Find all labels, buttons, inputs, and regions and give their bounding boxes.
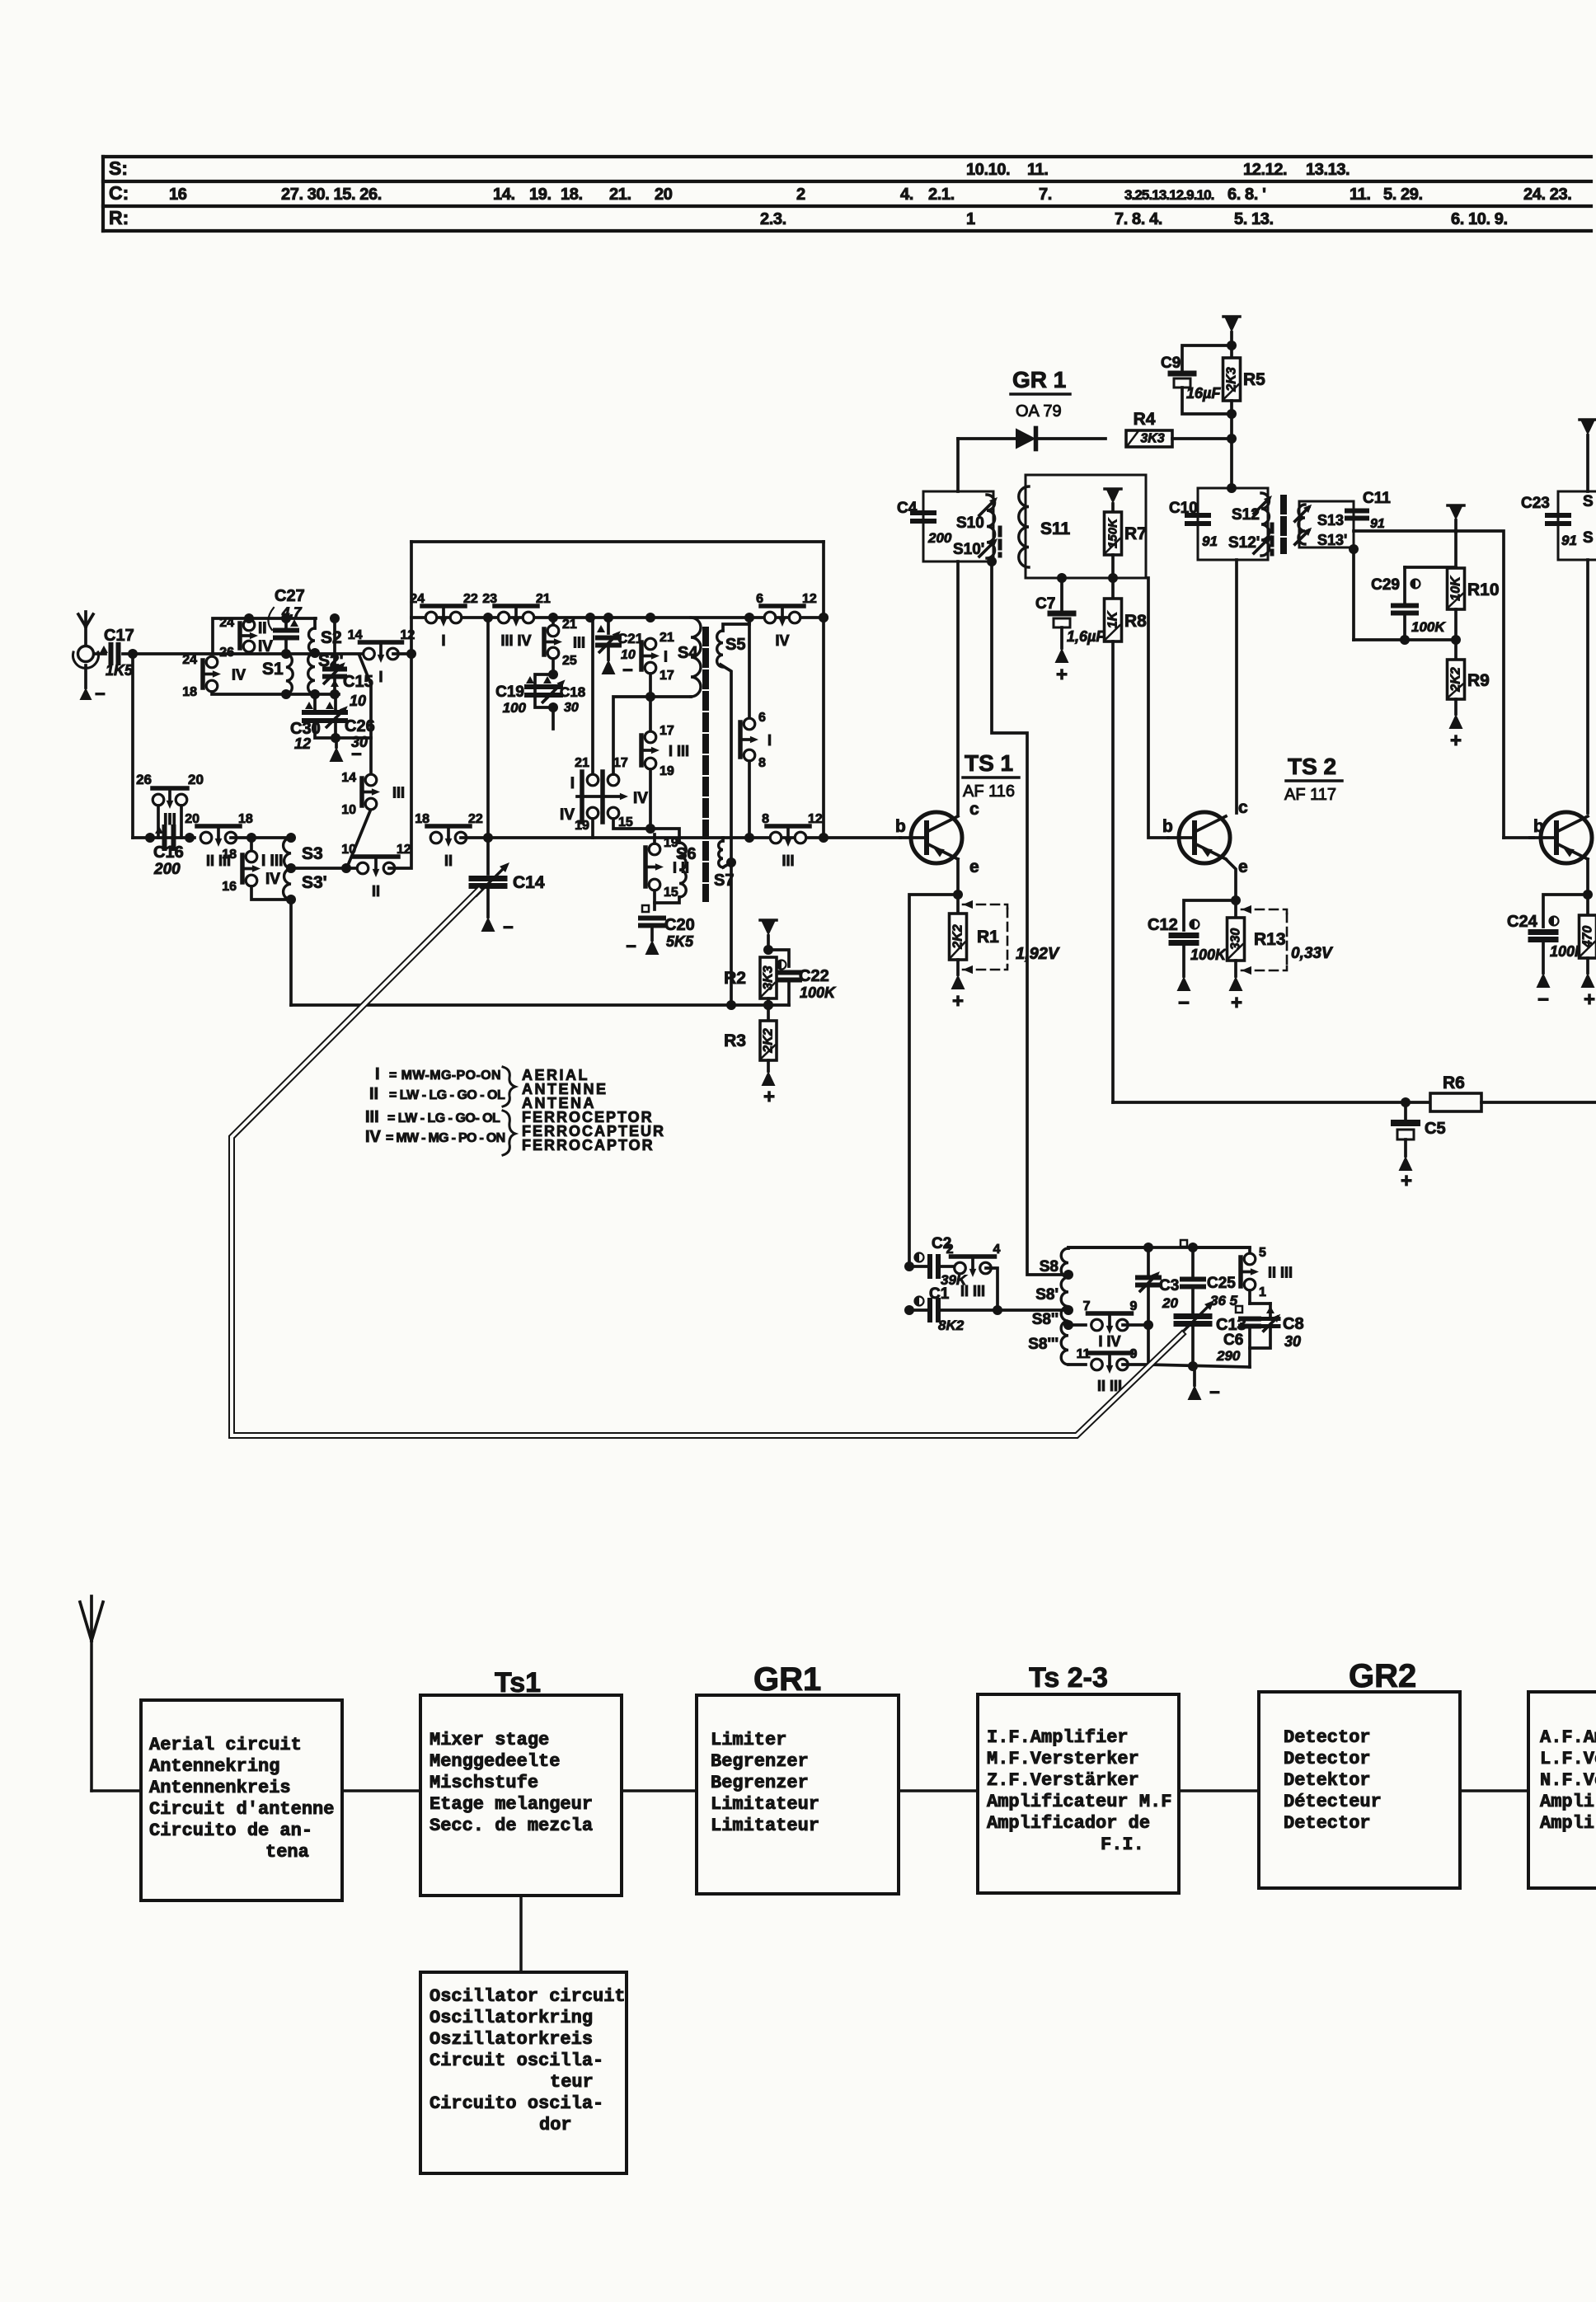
ground minus below C12 [1177, 976, 1191, 1014]
svg-text:II: II [372, 883, 380, 900]
capacitor C27 [268, 587, 304, 653]
svg-text:9: 9 [1130, 1299, 1138, 1313]
svg-text:R13: R13 [1254, 930, 1286, 949]
svg-text:tena: tena [265, 1842, 309, 1863]
svg-text:−: − [1178, 992, 1190, 1014]
svg-text:24: 24 [182, 653, 197, 667]
svg-text:20: 20 [1162, 1295, 1178, 1311]
capacitor C2 [904, 1235, 968, 1288]
resistor R13 [1228, 900, 1286, 976]
label TS1 [963, 750, 1019, 801]
wire 16 to S3' bottom [251, 886, 290, 900]
switch 24-I-22 bus [422, 604, 465, 608]
svg-text:200: 200 [927, 530, 952, 546]
svg-text:12.12.: 12.12. [1243, 161, 1287, 179]
svg-text:7: 7 [1083, 1299, 1091, 1313]
svg-text:16: 16 [222, 880, 237, 894]
measure 1,92V bracket [963, 900, 1060, 974]
svg-text:S8': S8' [1035, 1286, 1059, 1304]
minus supply above R10 [1448, 505, 1464, 532]
svg-text:III: III [365, 1108, 379, 1126]
svg-text:16: 16 [169, 186, 187, 204]
svg-text:S4: S4 [678, 644, 698, 662]
svg-text:91: 91 [1370, 517, 1385, 531]
svg-text:C1: C1 [929, 1285, 950, 1303]
switch 17-IIII-19 [641, 724, 689, 778]
svg-text:C22: C22 [799, 967, 829, 985]
wire cross 19 down [591, 819, 594, 838]
wire aerial to mixer [342, 1789, 420, 1792]
svg-text:2.1.: 2.1. [928, 186, 955, 204]
wire 4 down to C1 row [986, 1268, 997, 1310]
wire C1 to S8 tap [997, 1308, 1068, 1312]
svg-text:330: 330 [1229, 928, 1243, 951]
svg-text:+: + [1401, 1170, 1412, 1192]
svg-text:19: 19 [575, 819, 589, 833]
svg-text:C12: C12 [1148, 916, 1178, 934]
svg-text:−: − [1537, 989, 1549, 1011]
svg-text:30: 30 [1284, 1333, 1301, 1350]
svg-text:21: 21 [562, 618, 577, 632]
coil S2 S2' [308, 618, 344, 699]
svg-text:+: + [1450, 730, 1462, 752]
svg-text:Circuito de an-: Circuito de an- [149, 1820, 312, 1841]
svg-text:3K3: 3K3 [1140, 432, 1164, 446]
svg-text:Detektor: Detektor [1284, 1770, 1371, 1791]
wire TS1 collector [956, 561, 960, 815]
block IF amplifier [978, 1694, 1179, 1893]
wire 8 down to bus [748, 761, 751, 838]
svg-text:I: I [767, 732, 772, 749]
wire S8 top bus [1068, 1247, 1148, 1248]
coil S10 S10' [987, 495, 995, 558]
svg-text:200: 200 [153, 861, 181, 878]
svg-text:R10: R10 [1467, 580, 1500, 599]
svg-text:+: + [1584, 989, 1595, 1011]
svg-text:1: 1 [966, 210, 975, 228]
svg-text:21: 21 [575, 756, 589, 770]
tank box C4 S10 [897, 491, 1000, 561]
svg-text:III: III [392, 785, 405, 801]
svg-text:I: I [441, 632, 445, 649]
svg-text:C29: C29 [1371, 576, 1400, 594]
svg-text:Ampli: Ampli [1540, 1813, 1594, 1834]
node bus [819, 613, 829, 622]
svg-text:4.7: 4.7 [281, 604, 303, 620]
svg-text:C16: C16 [153, 843, 184, 862]
capacitor C25 [1181, 1240, 1238, 1313]
wire 12 up to left rail [389, 542, 411, 868]
svg-text:100: 100 [503, 700, 527, 716]
coupling dashed S12-S13 [1280, 498, 1287, 551]
svg-text:C10: C10 [1169, 500, 1198, 517]
svg-text:+: + [1231, 992, 1242, 1014]
svg-text:GR2: GR2 [1349, 1658, 1416, 1694]
wire TS3 base stub [1504, 836, 1533, 839]
svg-text:Ampli: Ampli [1540, 1792, 1594, 1812]
wire oscillator bottom bus [291, 1003, 789, 1007]
svg-text:S: S [1583, 529, 1594, 547]
capacitor C20 [641, 905, 695, 950]
trimmer C19 capacitor C18 block [495, 659, 585, 729]
svg-text:III: III [782, 853, 794, 869]
svg-text:F.I.: F.I. [1101, 1835, 1144, 1855]
svg-text:2K2: 2K2 [951, 924, 965, 949]
svg-text:−: − [1209, 1382, 1220, 1402]
svg-text:Mischstufe: Mischstufe [430, 1773, 538, 1793]
wire C14 column [486, 618, 490, 874]
wire 6-I-8 column from rail [748, 623, 751, 718]
svg-text:13.13.: 13.13. [1306, 161, 1350, 179]
svg-text:I.F.Amplifier: I.F.Amplifier [987, 1727, 1129, 1748]
capacitor C7 [1035, 573, 1105, 648]
svg-text:21: 21 [660, 631, 674, 645]
resistor 470 [1580, 895, 1596, 973]
svg-text:6: 6 [758, 711, 766, 725]
svg-text:8K2: 8K2 [938, 1318, 965, 1333]
svg-text:S5: S5 [725, 636, 745, 654]
svg-text:11: 11 [1077, 1347, 1091, 1361]
node bus [603, 613, 613, 622]
svg-text:5. 29.: 5. 29. [1383, 186, 1423, 204]
svg-text:1K5: 1K5 [106, 662, 134, 679]
svg-text:20: 20 [188, 772, 204, 787]
svg-text:C3: C3 [1159, 1277, 1179, 1294]
svg-text:−: − [95, 684, 106, 704]
svg-text:b: b [1533, 817, 1544, 836]
coupling dashed line S4-S5 [702, 630, 709, 899]
svg-text:C27: C27 [275, 587, 305, 605]
svg-text:100K: 100K [800, 984, 837, 1001]
svg-text:9: 9 [1130, 1347, 1138, 1361]
svg-text:IV: IV [633, 790, 648, 807]
wire 12 to rail [393, 652, 411, 655]
svg-text:S8: S8 [1040, 1258, 1059, 1275]
svg-text:S13': S13' [1317, 532, 1347, 548]
wire small box around II-IV switch [213, 618, 316, 653]
svg-text:21: 21 [536, 592, 551, 606]
svg-text:Secc. de mezcla: Secc. de mezcla [430, 1816, 593, 1836]
svg-text:23: 23 [482, 592, 497, 606]
svg-text:Antennekring: Antennekring [149, 1756, 279, 1777]
wire S13' down [1352, 547, 1355, 640]
svg-text:26: 26 [136, 772, 152, 787]
svg-text:C9: C9 [1161, 355, 1181, 372]
wire AGC bus to R6 [1113, 1101, 1439, 1104]
switch 2-IIIII-4 [946, 1243, 1001, 1299]
svg-text:3K3: 3K3 [762, 965, 776, 989]
wire cross 17 up [613, 697, 650, 774]
svg-text:IV: IV [265, 871, 280, 888]
svg-text:= LW - LG - GO - OL: = LW - LG - GO - OL [389, 1088, 505, 1102]
wire TS2 base [1148, 578, 1168, 838]
svg-text:I III: I III [261, 853, 283, 870]
svg-text:1: 1 [1259, 1285, 1266, 1299]
block AF amplifier partial [1528, 1692, 1596, 1888]
label TS2 [1284, 754, 1342, 804]
capacitor C24 [1507, 895, 1588, 973]
svg-text:S:: S: [109, 157, 128, 179]
block detector [1259, 1692, 1460, 1888]
wire to S3 bus [231, 836, 291, 839]
svg-text:Oscillatorkring: Oscillatorkring [430, 2008, 593, 2028]
wire to S6 [649, 769, 652, 829]
resistor R5 [1223, 345, 1266, 439]
svg-text:14: 14 [348, 628, 363, 642]
svg-text:10.10.: 10.10. [966, 161, 1010, 179]
svg-text:Oszillatorkreis: Oszillatorkreis [430, 2029, 593, 2050]
block aerial circuit [141, 1700, 342, 1900]
plus supply below R3 [762, 1071, 776, 1108]
svg-text:Oscillator circuit: Oscillator circuit [430, 1986, 626, 2007]
svg-text:S3: S3 [302, 844, 323, 863]
svg-text:19: 19 [664, 836, 678, 850]
wire TS3 emitter [1586, 859, 1589, 895]
node antenna junction [128, 649, 138, 659]
svg-text:20: 20 [185, 812, 199, 826]
resistor R10 [1448, 568, 1500, 660]
resistor R4 [1126, 410, 1237, 447]
minus supply top [1223, 317, 1240, 345]
ground minus below C21 [602, 660, 633, 680]
svg-text:Begrenzer: Begrenzer [711, 1773, 809, 1793]
svg-text:R7: R7 [1124, 524, 1147, 543]
switch 6-I-8 [740, 711, 772, 770]
svg-text:S13: S13 [1317, 512, 1344, 529]
svg-text:6. 8. ': 6. 8. ' [1228, 186, 1265, 204]
capacitor C9 [1161, 341, 1237, 414]
wire bottom bus S8 tank [1148, 1365, 1250, 1367]
switch 18-II-22 at C14 [427, 824, 470, 829]
svg-text:IV: IV [775, 632, 789, 649]
plus supply below C5 [1399, 1156, 1413, 1192]
svg-text:Aerial circuit: Aerial circuit [149, 1735, 302, 1755]
wire bus C16row to TS1 [461, 836, 824, 839]
switch 8-III-12 bottom [767, 824, 810, 829]
switch 23-IIIIV-21 bus [495, 604, 537, 608]
parts location table [103, 157, 1591, 231]
plus supply below R1 [951, 975, 965, 1012]
svg-text:C14: C14 [513, 873, 545, 892]
svg-text:II: II [369, 1085, 378, 1103]
svg-text:2K2: 2K2 [1449, 667, 1463, 692]
capacitor C17 [94, 627, 134, 679]
svg-text:3.25.13.12.9.10.: 3.25.13.12.9.10. [1124, 187, 1214, 203]
legend band table [365, 1065, 665, 1155]
minus supply above R2 [760, 920, 777, 936]
svg-text:TS 1: TS 1 [965, 750, 1013, 776]
node TS1 base rail [819, 613, 829, 622]
svg-text:II III: II III [960, 1283, 985, 1299]
svg-text:Détecteur: Détecteur [1284, 1792, 1382, 1812]
wire S3 tap to switch 10 [291, 867, 359, 870]
svg-text:AF 116: AF 116 [963, 782, 1015, 801]
svg-text:C26: C26 [345, 717, 375, 735]
svg-text:II: II [258, 620, 267, 637]
svg-text:R4: R4 [1134, 410, 1156, 429]
svg-text:C5: C5 [1425, 1120, 1446, 1138]
svg-text:4.: 4. [900, 186, 913, 204]
aerial ground minus [80, 684, 106, 704]
coil S6 [676, 843, 696, 897]
svg-text:I: I [375, 1065, 380, 1083]
svg-text:R2: R2 [724, 969, 746, 988]
wire diode to C4 box [956, 439, 960, 491]
svg-text:4: 4 [993, 1243, 1001, 1257]
svg-text:1,92V: 1,92V [1016, 945, 1060, 963]
ground minus below C26 [330, 738, 362, 764]
IF box S13 [1295, 501, 1354, 548]
svg-text:= MW-MG-PO-ON: = MW-MG-PO-ON [389, 1069, 501, 1083]
wire C16 row [133, 836, 195, 839]
wire TS1 emitter [956, 859, 960, 895]
svg-text:GR1: GR1 [753, 1661, 821, 1698]
node bus [744, 613, 754, 622]
svg-text:Circuit d'antenne: Circuit d'antenne [149, 1799, 334, 1820]
svg-text:+: + [763, 1086, 775, 1108]
trimmer C8 [1250, 1304, 1304, 1350]
svg-text:A.F.Am: A.F.Am [1540, 1727, 1596, 1748]
svg-text:12: 12 [294, 735, 311, 752]
svg-text:100K: 100K [1411, 619, 1446, 635]
svg-text:b: b [895, 817, 906, 836]
capacitor C4 [913, 510, 934, 515]
node bus [585, 613, 595, 622]
switch 14-I-12 [360, 640, 402, 645]
svg-text:11.: 11. [1350, 186, 1371, 204]
transistor TS3 [1530, 812, 1592, 863]
svg-text:Circuito oscila-: Circuito oscila- [430, 2093, 603, 2114]
svg-text:−: − [503, 917, 514, 937]
svg-text:18: 18 [182, 685, 197, 699]
switch 26-III-20 above C16 [136, 772, 204, 838]
ground minus below C20 [626, 936, 659, 956]
aerial antenna symbol [73, 612, 99, 688]
svg-text:19: 19 [660, 764, 674, 778]
svg-text:C20: C20 [664, 916, 695, 934]
wire S13 to TS3 base [1354, 531, 1504, 838]
switch 11-IIIII-9 bottom [1068, 1347, 1148, 1394]
coil S1 [262, 649, 293, 699]
svg-text:TS 2: TS 2 [1288, 754, 1336, 779]
svg-text:30: 30 [351, 734, 368, 750]
svg-text:C11: C11 [1363, 490, 1391, 507]
capacitor C16 [145, 826, 195, 878]
minus supply above C23 box [1580, 420, 1596, 491]
svg-text:AF 117: AF 117 [1284, 786, 1336, 804]
svg-text:S1: S1 [262, 660, 284, 679]
svg-text:16µF: 16µF [1186, 385, 1221, 402]
svg-text:S11: S11 [1040, 519, 1071, 538]
svg-text:R8: R8 [1124, 612, 1147, 631]
svg-text:N.F.Ve: N.F.Ve [1540, 1770, 1596, 1791]
svg-text:11.: 11. [1027, 161, 1049, 179]
capacitor C30 [290, 694, 326, 752]
svg-text:S10: S10 [956, 514, 984, 532]
svg-text:S12: S12 [1232, 506, 1260, 524]
svg-text:Mixer stage: Mixer stage [430, 1730, 549, 1750]
capacitor C22 [768, 950, 837, 1005]
switch 14-III-10 [341, 771, 405, 817]
plus supply below R13 [1229, 976, 1243, 1014]
trimmer C15 [324, 613, 373, 709]
svg-text:I II: I II [673, 860, 689, 876]
svg-text:OA 79: OA 79 [1016, 402, 1062, 420]
svg-text:dor: dor [539, 2115, 572, 2135]
wire oscillator top rail [411, 540, 824, 543]
svg-text:C15: C15 [343, 673, 373, 691]
block diagram antenna [80, 1596, 103, 1791]
svg-text:e: e [969, 857, 979, 876]
svg-text:Begrenzer: Begrenzer [711, 1751, 809, 1772]
trimmer C21 [597, 618, 643, 662]
svg-text:= LW - LG - GO- OL: = LW - LG - GO- OL [387, 1111, 500, 1125]
svg-text:12: 12 [808, 812, 823, 826]
wire C30 C26 common bus [315, 722, 371, 743]
svg-text:Antennenkreis: Antennenkreis [149, 1778, 291, 1798]
wire antenna to aerial box [92, 1789, 141, 1792]
wire AVC bus [1354, 638, 1456, 641]
svg-text:22: 22 [463, 592, 478, 606]
svg-text:C23: C23 [1521, 495, 1550, 512]
svg-text:Menggedeelte: Menggedeelte [430, 1751, 560, 1772]
ground minus below C13 [1188, 1367, 1220, 1402]
wire mixer to limiter [622, 1789, 697, 1792]
wire R8 down to AGC bus [1111, 641, 1115, 1102]
svg-text:2.3.: 2.3. [760, 210, 786, 228]
capacitor C5 [1394, 1097, 1446, 1156]
switch 24-18-IV [182, 653, 246, 699]
svg-text:15: 15 [664, 886, 678, 900]
svg-text:I: I [378, 669, 383, 685]
svg-text:17: 17 [660, 669, 674, 683]
svg-text:C24: C24 [1507, 913, 1538, 931]
svg-text:10: 10 [341, 803, 356, 817]
svg-text:18.: 18. [561, 186, 583, 204]
svg-text:I: I [570, 775, 575, 792]
svg-text:18: 18 [222, 848, 237, 862]
wire oscillator right rail down to TS1 base [822, 542, 825, 838]
capacitor C11 [1347, 490, 1391, 531]
coil S5 [717, 618, 749, 667]
wire emitter to C2 drop [909, 895, 958, 1266]
svg-text:150K: 150K [1106, 518, 1120, 548]
svg-text:−: − [626, 936, 636, 956]
svg-text:14: 14 [341, 771, 356, 785]
node bus [548, 613, 558, 622]
coil S3 S3' [284, 833, 327, 904]
svg-text:12: 12 [401, 628, 415, 642]
ground minus below C14 [481, 917, 514, 937]
svg-text:2K3: 2K3 [1225, 367, 1239, 392]
plus supply below 470 [1581, 973, 1596, 1011]
switch 6-IV-12 top [761, 604, 804, 608]
IF tank box C23 [1521, 491, 1596, 560]
svg-text:R5: R5 [1243, 370, 1265, 389]
wire left drop to C16 row [131, 654, 134, 838]
svg-text:S8''': S8''' [1028, 1336, 1059, 1353]
svg-text:S2: S2 [321, 628, 342, 647]
svg-text:27. 30. 15. 26.: 27. 30. 15. 26. [281, 186, 382, 204]
wire limiter to IF [899, 1789, 978, 1792]
svg-text:Circuit oscilla-: Circuit oscilla- [430, 2051, 603, 2071]
legend braces [503, 1067, 515, 1106]
switch 20-IIIII-18 [197, 824, 240, 829]
svg-text:Ts 2-3: Ts 2-3 [1029, 1662, 1108, 1694]
svg-text:6: 6 [756, 592, 763, 606]
svg-text:S10': S10' [953, 541, 984, 558]
svg-text:C7: C7 [1035, 595, 1055, 613]
